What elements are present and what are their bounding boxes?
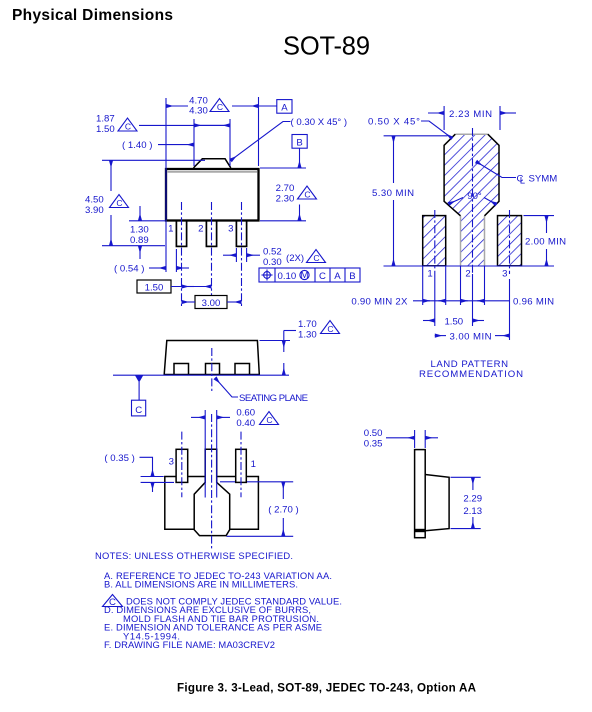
dimension 1.50 land pitch [423, 274, 484, 327]
chamfer callout (0.30 X 45deg) [231, 117, 348, 161]
svg-text:( 2.70 ): ( 2.70 ) [268, 505, 298, 516]
svg-text:4.50: 4.50 [85, 195, 104, 206]
svg-text:Figure 3. 3-Lead, SOT-89, JEDE: Figure 3. 3-Lead, SOT-89, JEDEC TO-243, … [177, 682, 477, 695]
dimension 1.87/1.50 tab width [96, 114, 230, 136]
lead 1 center line [181, 202, 183, 308]
svg-text:1.30: 1.30 [298, 330, 317, 341]
svg-text:4.30: 4.30 [189, 106, 208, 117]
svg-text:SOT-89: SOT-89 [283, 33, 370, 61]
svg-text:C: C [135, 405, 142, 416]
svg-text:(2X): (2X) [286, 253, 304, 264]
svg-text:1.70: 1.70 [298, 319, 317, 330]
side center line [211, 348, 213, 391]
dimension 1.50 lead pitch [137, 280, 212, 294]
svg-text:3.00: 3.00 [202, 298, 221, 309]
dimension 4.70/4.30 width [166, 96, 277, 117]
datum box A [277, 100, 292, 114]
svg-text:1: 1 [427, 269, 432, 280]
svg-text:( 0.35 ): ( 0.35 ) [104, 453, 134, 464]
lead 2 center line [211, 202, 213, 307]
svg-text:2.30: 2.30 [276, 194, 295, 205]
svg-text:1.30: 1.30 [130, 225, 149, 236]
svg-text:( 1.40 ): ( 1.40 ) [122, 140, 152, 151]
center pad (pin 2 + tab) hatched [444, 134, 499, 266]
extension line body right edge [258, 97, 260, 166]
pad 3 hatched [498, 216, 522, 266]
chamfer callout 0.50 X 45deg [368, 117, 452, 139]
dimension 5.30 MIN [372, 136, 448, 266]
svg-text:Physical Dimensions: Physical Dimensions [12, 7, 173, 24]
bottom body [165, 477, 259, 530]
svg-text:2.00 MIN: 2.00 MIN [525, 237, 566, 248]
svg-text:2: 2 [198, 224, 203, 235]
side foot 2 [206, 364, 220, 375]
side foot 1 [174, 364, 189, 375]
svg-text:2.23 MIN: 2.23 MIN [449, 109, 492, 120]
dimension 2.00 MIN [524, 216, 567, 266]
bottom lead 3 center line [181, 432, 183, 498]
dimension 2.29/2.13 [451, 477, 483, 528]
extension line body left edge [165, 98, 167, 272]
dimension (1.40) [122, 140, 194, 151]
bottom lead 2 [205, 449, 217, 476]
lead 2 [206, 221, 216, 247]
svg-text:3: 3 [502, 269, 507, 280]
svg-text:0.30: 0.30 [263, 257, 282, 268]
90 degree callout [449, 191, 497, 205]
svg-text:2: 2 [465, 269, 470, 280]
svg-text:NOTES: UNLESS OTHERWISE SPECIF: NOTES: UNLESS OTHERWISE SPECIFIED. [95, 550, 293, 561]
svg-text:A: A [281, 103, 288, 114]
svg-text:B: B [296, 138, 302, 149]
svg-text:1: 1 [251, 459, 256, 470]
svg-text:2.13: 2.13 [463, 506, 482, 517]
extension line body bottom right [260, 220, 306, 222]
dimension 2.23 MIN [428, 106, 516, 130]
dimension 3.00 MIN land span [435, 331, 510, 342]
dimension 0.60/0.40 [191, 408, 279, 498]
bottom center line main [211, 414, 213, 549]
seating plane callout [215, 378, 308, 404]
body shadow (gray) [168, 171, 258, 173]
svg-text:0.90 MIN 2X: 0.90 MIN 2X [351, 297, 408, 308]
dimension (0.35) [104, 453, 174, 492]
lead 3 center line [241, 202, 243, 308]
dimension 1.70/1.30 [260, 319, 340, 375]
note C triangle [103, 595, 123, 608]
pad 1 hatched [423, 216, 446, 266]
svg-text:0.50: 0.50 [364, 428, 383, 439]
svg-text:0.50 X 45°: 0.50 X 45° [368, 117, 420, 128]
svg-text:B: B [349, 271, 355, 282]
end body profile [425, 475, 449, 531]
svg-text:SEATING PLANE: SEATING PLANE [239, 393, 308, 404]
lead 1 [176, 221, 186, 247]
dimension 1.30/0.89 lead length [129, 206, 165, 259]
lead 3 [236, 221, 246, 247]
dimension 0.50/0.35 [364, 428, 438, 450]
side body [164, 341, 259, 375]
dimension (2.70) [220, 482, 299, 537]
package body [166, 169, 259, 221]
dimension 0.52/0.30 (2X) lead width [223, 247, 326, 269]
bottom lead 3 [176, 449, 188, 482]
tab trapezoid with chamfer [194, 159, 231, 168]
dimension (0.54) [114, 249, 189, 275]
svg-text:0.52: 0.52 [263, 247, 282, 258]
dimension 0.90 MIN 2X / 0.96 MIN [351, 266, 554, 340]
svg-text:2.29: 2.29 [463, 494, 482, 505]
svg-text:0.60: 0.60 [236, 408, 255, 419]
svg-text:3: 3 [228, 224, 233, 235]
dimension 4.50/3.90 height [85, 160, 205, 245]
svg-text:3.90: 3.90 [85, 205, 104, 216]
svg-text:3: 3 [169, 457, 174, 468]
svg-text:5.30 MIN: 5.30 MIN [372, 188, 414, 199]
extension line tab right [229, 119, 231, 166]
feature control frame 0.10 M C A B [259, 268, 360, 282]
svg-text:( 0.30 X 45° ): ( 0.30 X 45° ) [291, 117, 348, 128]
svg-text:1.50: 1.50 [96, 124, 115, 135]
datum C flag [132, 375, 146, 416]
svg-text:90°: 90° [467, 191, 482, 202]
svg-text:2.70: 2.70 [276, 183, 295, 194]
dimension 2.70/2.30 body height [276, 183, 317, 221]
end bottom notch [415, 529, 426, 532]
bottom lead 1 center line [240, 432, 242, 498]
land pattern caption [419, 359, 523, 380]
svg-text:C: C [319, 271, 326, 282]
svg-text:0.89: 0.89 [130, 235, 149, 246]
svg-text:0.96 MIN: 0.96 MIN [513, 297, 554, 308]
svg-text:A: A [334, 271, 341, 282]
svg-text:L: L [520, 176, 526, 187]
svg-text:1.50: 1.50 [145, 283, 164, 294]
svg-text:F. DRAWING FILE NAME: MA03CREV: F. DRAWING FILE NAME: MA03CREV2 [104, 639, 275, 650]
dimension 3.00 lead span [182, 296, 242, 310]
svg-text:1.87: 1.87 [96, 114, 115, 125]
land baseline [384, 265, 555, 267]
extension line body top right [260, 167, 306, 169]
seating plane line [113, 374, 289, 376]
svg-text:B. ALL DIMENSIONS ARE IN MILLI: B. ALL DIMENSIONS ARE IN MILLIMETERS. [104, 579, 298, 590]
svg-text:3.00 MIN: 3.00 MIN [450, 331, 492, 342]
pad center lines [472, 128, 474, 274]
svg-text:0.10: 0.10 [278, 271, 297, 282]
svg-text:1: 1 [168, 224, 173, 235]
svg-text:1.50: 1.50 [444, 316, 463, 327]
svg-text:M: M [301, 270, 309, 281]
svg-text:SYMM: SYMM [529, 174, 558, 185]
centerline symm callout [476, 162, 557, 187]
bottom lead 1 [236, 449, 247, 482]
bottom tab octagon [194, 477, 230, 536]
side foot 3 [235, 364, 250, 375]
svg-text:0.35: 0.35 [364, 439, 383, 450]
datum box B [292, 135, 307, 169]
svg-text:RECOMMENDATION: RECOMMENDATION [419, 369, 523, 380]
end tab [415, 450, 426, 538]
svg-text:( 0.54 ): ( 0.54 ) [114, 264, 144, 275]
extension line tab left [193, 119, 195, 166]
svg-text:0.40: 0.40 [236, 418, 255, 429]
